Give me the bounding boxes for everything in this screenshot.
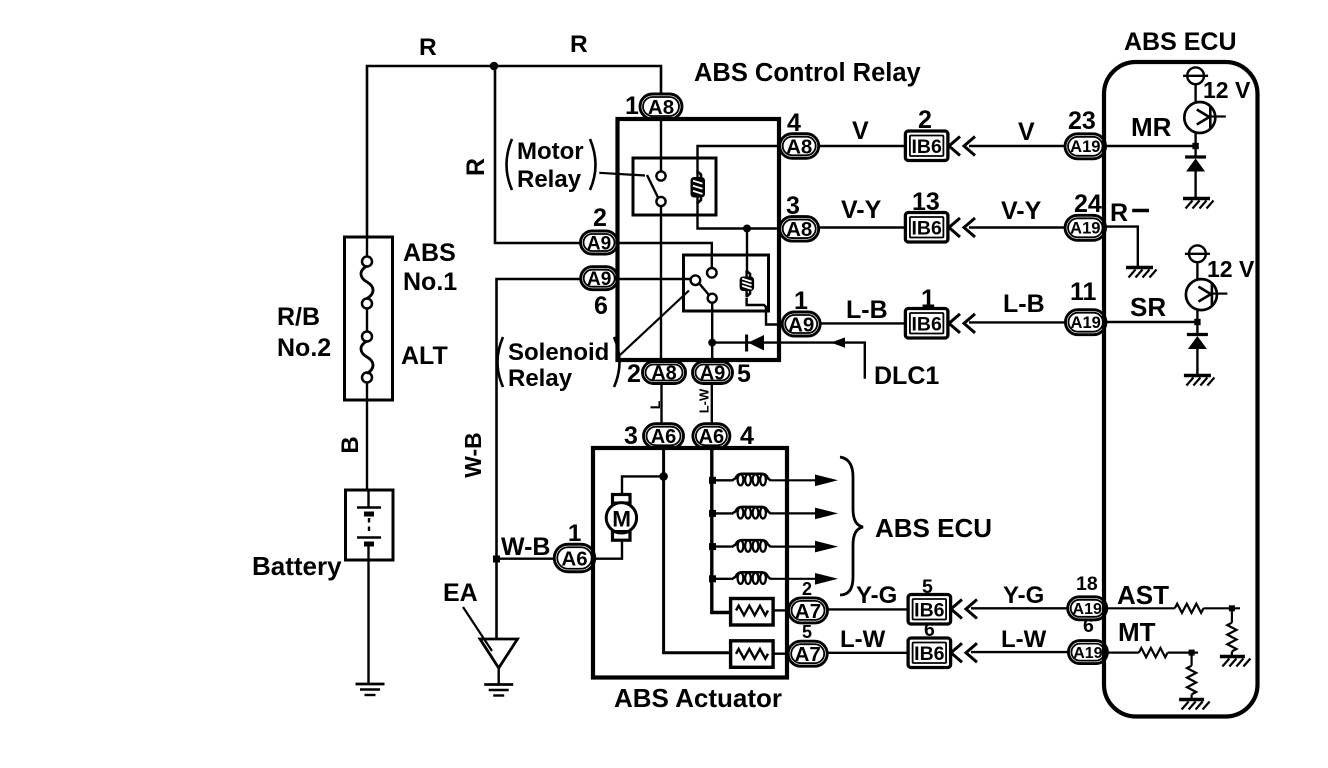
wire coil 1 to arrow	[771, 479, 818, 481]
label MT	[1118, 617, 1156, 647]
ground EA	[484, 685, 513, 696]
label B rotated	[337, 436, 364, 453]
svg-text:24: 24	[1074, 190, 1102, 218]
label DLC1	[874, 362, 939, 390]
svg-text:ABS ECU: ABS ECU	[1124, 28, 1237, 56]
svg-text:2: 2	[627, 360, 641, 388]
label pin 4 of A6	[740, 422, 754, 450]
wire MT resistor to junction	[1168, 651, 1198, 653]
wire AST from A19-18 to resistor	[1107, 607, 1175, 609]
svg-text:5: 5	[737, 360, 751, 388]
wire to solenoid coil 2	[713, 512, 732, 514]
solenoid valve coil 2	[732, 507, 772, 519]
wire from A8-1 into motor relay switch	[660, 119, 662, 172]
wire junction through diode to DLC1	[712, 343, 865, 379]
label ABS No.1	[403, 239, 457, 296]
svg-text:5: 5	[802, 622, 812, 642]
arrowhead coil 4	[815, 573, 838, 585]
wire resistor 1 to A7-2	[773, 609, 789, 611]
svg-text:R: R	[570, 31, 588, 58]
wire motor branch	[622, 476, 664, 495]
wire V from A8-4 to junction IB6-2	[819, 145, 906, 147]
wire coil 3 to arrow	[771, 545, 818, 547]
label R rotated on drop wire	[462, 158, 490, 176]
svg-text:2: 2	[802, 579, 812, 599]
transistor 2 (SR driver)	[1186, 279, 1228, 310]
svg-text:A8: A8	[648, 96, 674, 119]
svg-text:MR: MR	[1131, 112, 1172, 142]
arrows into IB6 row 5	[951, 643, 977, 662]
wire transistor 2 collector	[1196, 310, 1198, 335]
node junction solenoid coil 2	[709, 510, 716, 517]
pointer line Solenoid Relay label	[620, 291, 689, 356]
svg-text:18: 18	[1076, 573, 1098, 595]
wire MR from A19-23 to transistor	[1106, 145, 1196, 147]
label AST	[1117, 580, 1169, 610]
label R/B No.2	[277, 303, 331, 362]
wire 12V to transistor 1	[1194, 84, 1196, 103]
wire MT from A19-6 to resistor	[1107, 651, 1139, 653]
svg-text:2: 2	[593, 204, 607, 232]
svg-text:IB6: IB6	[914, 643, 945, 665]
ABS control relay box	[618, 119, 780, 360]
label pin 13 of IB6	[912, 188, 940, 216]
junction connector IB6 row 1	[905, 131, 948, 161]
label pin 2 of A7	[802, 579, 812, 599]
label pin 5 of IB6	[922, 576, 933, 598]
wire Y-G from A19-18 to IB6-5	[971, 607, 1068, 609]
label EA	[443, 579, 478, 607]
connector A19 (pin 6)	[1068, 641, 1107, 664]
arrows into IB6 row 2	[949, 218, 975, 237]
svg-text:1: 1	[625, 92, 639, 120]
arrowhead coil 2	[815, 508, 838, 520]
wire to solenoid coil 1	[713, 479, 732, 481]
arrows into IB6 row 4	[951, 600, 977, 619]
label pin 1 of A8	[625, 92, 639, 120]
wire V-Y from A8-3 to IB6-13	[819, 226, 906, 228]
connector A19 (pin 23)	[1065, 134, 1106, 159]
fuse ABS No.1	[361, 257, 373, 309]
resistor box 2 (L-W)	[731, 641, 774, 668]
label pin 23 of A19	[1068, 107, 1096, 135]
svg-text:V: V	[852, 117, 869, 145]
wire SR from A19-11 to transistor	[1106, 321, 1198, 323]
wire W-B branch to connector 1 A6	[497, 558, 555, 560]
label ALT	[401, 342, 448, 370]
battery	[346, 490, 394, 560]
wire motor to connector A6-1	[595, 540, 623, 559]
label pin 2 of bottom A8	[627, 360, 641, 388]
connector A9 (pin 1)	[782, 312, 820, 336]
wire junction down to solenoid coil	[746, 229, 748, 273]
brace ABS ECU	[840, 457, 863, 595]
node junction MR	[1192, 143, 1198, 149]
wire L-B from A9-1 to IB6-1	[820, 322, 905, 324]
junction connector IB6 row 2	[905, 213, 948, 243]
connector A9 (pin 6) left of relay	[581, 267, 618, 290]
wire L from A8-2 to A6-3	[660, 383, 662, 424]
svg-text:A8: A8	[786, 218, 812, 241]
ABS actuator box	[593, 448, 787, 678]
label ABS Actuator title	[614, 683, 782, 713]
svg-text:A19: A19	[1070, 220, 1100, 238]
label pin 1 of A9 right	[794, 287, 808, 315]
svg-text:R/B: R/B	[277, 303, 320, 331]
svg-text:IB6: IB6	[911, 313, 942, 335]
label pin 1 of A6	[568, 520, 581, 547]
arrowhead DLC1 pointing left	[831, 337, 845, 347]
label pin 2 of IB6	[918, 106, 932, 134]
label pin 1 of IB6 row3	[921, 285, 935, 313]
svg-text:Solenoid: Solenoid	[508, 339, 609, 366]
node junction motor branch	[659, 472, 668, 481]
svg-text:Y-G: Y-G	[1003, 582, 1044, 609]
connector A6 (W-B, pin 1)	[554, 544, 595, 572]
diode DLC1 clamp	[747, 335, 764, 352]
label L rotated	[647, 400, 663, 409]
resistor AST	[1175, 604, 1204, 613]
svg-text:R: R	[462, 158, 490, 176]
connector A8 (pin 4)	[780, 134, 819, 159]
connector A19 (pin 11)	[1065, 310, 1106, 335]
resistor AST pulldown	[1227, 608, 1236, 651]
wire to solenoid coil 3	[713, 545, 732, 547]
label L-W right	[1001, 626, 1047, 653]
label Y-G right	[1003, 582, 1044, 609]
svg-text:A6: A6	[561, 547, 587, 570]
svg-text:Relay: Relay	[508, 365, 573, 392]
wire A6-4 down to resistor 1	[712, 448, 731, 613]
svg-text:L-W: L-W	[1001, 626, 1047, 653]
node junction MT	[1189, 650, 1195, 656]
label pin 6 of A19	[1083, 615, 1094, 637]
fuse ALT	[361, 332, 373, 383]
pointer line Motor Relay label	[599, 173, 645, 176]
svg-text:R: R	[419, 34, 437, 61]
svg-text:M: M	[612, 506, 631, 531]
resistor MT	[1139, 648, 1168, 657]
svg-text:ABS: ABS	[403, 239, 456, 267]
wire connector A9-6 to solenoid switch	[618, 278, 691, 280]
resistor box 1 (Y-G)	[731, 599, 774, 626]
node junction above solenoid coil	[743, 225, 751, 233]
wire motor relay coil bottom to connector 3 A8	[698, 203, 780, 229]
ground MT	[1179, 700, 1210, 710]
wire V-Y from A19-24 to IB6-13	[969, 226, 1065, 228]
wire diode 2 to ground	[1196, 349, 1198, 374]
wire W-B from connector A9-6 down to EA ground with branch junction	[497, 279, 582, 638]
svg-text:ABS ECU: ABS ECU	[875, 513, 992, 543]
svg-text:L: L	[647, 400, 663, 409]
wire solenoid switch down to junction	[711, 303, 713, 343]
motor relay switch contacts	[647, 171, 666, 206]
solenoid relay switch contacts	[691, 268, 717, 303]
wire to solenoid coil 4	[713, 578, 732, 580]
wire L-B from A19-11 to IB6-1	[969, 321, 1065, 323]
svg-text:12 V: 12 V	[1203, 77, 1251, 103]
wire R bus from fuse box to relay, with junction	[367, 66, 661, 237]
node junction solenoid coil 3	[709, 543, 716, 550]
connector A9 (pin 5) bottom of relay	[693, 362, 733, 385]
svg-text:A9: A9	[788, 313, 814, 336]
connector A6 (pin 4)	[693, 424, 730, 449]
connector A9 (pin 2) left of relay	[581, 231, 618, 254]
wire coil 2 to arrow	[771, 512, 818, 514]
label (Motor Relay)	[507, 138, 596, 193]
svg-text:W-B: W-B	[501, 533, 550, 561]
svg-text:R: R	[1110, 199, 1128, 227]
label pin 5 of bottom A9	[737, 360, 751, 388]
arrowhead coil 3	[815, 541, 838, 553]
svg-text:12 V: 12 V	[1207, 256, 1255, 282]
ground ECU row 2	[1184, 376, 1215, 386]
junction connector IB6 row 5	[908, 638, 951, 668]
node junction diode/DLC1	[708, 339, 716, 347]
ground ECU row 1	[1183, 199, 1214, 209]
label 12 V row 1	[1203, 77, 1251, 103]
svg-text:V-Y: V-Y	[841, 196, 882, 224]
arrows into IB6 row 1	[949, 137, 975, 156]
svg-text:No.2: No.2	[277, 334, 331, 362]
svg-text:L-B: L-B	[1003, 290, 1045, 318]
svg-text:L-B: L-B	[846, 296, 888, 324]
label R (right segment)	[570, 31, 588, 58]
wire motor relay coil top to connector 4 A8	[698, 146, 780, 173]
svg-text:6: 6	[1083, 615, 1094, 637]
svg-text:A9: A9	[700, 363, 726, 385]
wire battery to ground	[367, 544, 369, 684]
label ABS ECU (brace)	[875, 513, 992, 543]
label Battery	[252, 551, 342, 581]
connector A19 (pin 24)	[1065, 215, 1106, 240]
pump motor M	[606, 495, 636, 541]
solenoid valve coil 4	[732, 572, 772, 584]
wire junction to A9-5 connector	[711, 343, 713, 362]
wire L-W from A19-6 to IB6-6	[971, 651, 1068, 653]
wire 12V to transistor 2	[1196, 262, 1198, 280]
label ABS Control Relay title	[694, 59, 922, 87]
label Y-G left	[856, 582, 897, 609]
label pin 4 of A8	[787, 109, 801, 137]
motor relay coil	[691, 171, 706, 204]
diode clamp 2	[1187, 335, 1208, 350]
label pin 24 of A19	[1074, 190, 1102, 218]
label L-W rotated	[697, 388, 712, 413]
svg-text:SR: SR	[1130, 292, 1166, 322]
svg-text:6: 6	[594, 292, 608, 320]
wire stubs inside fuse box	[366, 237, 368, 400]
label pin 5 of A7	[802, 622, 812, 642]
arrows into IB6 row 3	[949, 314, 975, 333]
label pin 3 of A8	[786, 192, 800, 220]
svg-text:No.1: No.1	[403, 268, 457, 296]
svg-text:W-B: W-B	[460, 432, 486, 478]
solenoid valve coil 3	[732, 540, 772, 552]
junction connector IB6 row 3	[905, 309, 948, 339]
node junction AST	[1229, 605, 1235, 611]
svg-text:3: 3	[624, 422, 638, 450]
label R-	[1110, 199, 1149, 227]
connector A7 (pin 2)	[789, 598, 828, 623]
label MR	[1131, 112, 1172, 142]
svg-text:A6: A6	[699, 426, 725, 448]
wire resistor 2 to A7-5	[773, 653, 789, 655]
label L-B right	[1003, 290, 1045, 318]
resistor MT pulldown	[1187, 653, 1196, 695]
wire to ground MT	[1190, 694, 1192, 698]
solenoid relay box	[684, 255, 769, 311]
svg-text:A7: A7	[795, 600, 821, 623]
ABS ECU box	[1104, 62, 1258, 717]
fuse box R/B No.2	[345, 237, 393, 400]
svg-text:B: B	[337, 436, 364, 453]
transistor 1 (MR driver)	[1184, 102, 1226, 133]
svg-text:A6: A6	[651, 426, 677, 448]
svg-text:IB6: IB6	[911, 136, 942, 158]
svg-text:A8: A8	[786, 135, 812, 158]
svg-text:23: 23	[1068, 107, 1096, 135]
wire B fuse box to battery	[366, 400, 368, 490]
solenoid relay coil	[740, 271, 755, 298]
label pin 3 of A6	[624, 422, 638, 450]
supply 12V row 2	[1185, 245, 1210, 262]
label pin 11 of A19	[1070, 278, 1097, 306]
solenoid valve coil 1	[732, 474, 772, 486]
svg-text:A8: A8	[651, 363, 677, 385]
ground point triangle EA	[480, 639, 518, 684]
ground battery	[356, 684, 385, 695]
wire solenoid coil to connector 1 A9	[747, 298, 783, 325]
wire R- from A19-24 to ground	[1106, 227, 1138, 266]
label V left	[852, 117, 869, 145]
label pin 6 of left A9	[594, 292, 608, 320]
label R (left segment)	[419, 34, 437, 61]
label W-B rotated	[460, 432, 486, 478]
svg-text:Motor: Motor	[517, 138, 584, 165]
wire motor relay switch to bottom connector 2 A8	[660, 206, 662, 362]
svg-text:A7: A7	[795, 643, 821, 666]
label pin 6 of IB6	[924, 619, 935, 641]
connector A7 (pin 5)	[788, 641, 827, 666]
svg-text:IB6: IB6	[911, 217, 942, 239]
wire to ground AST	[1231, 651, 1233, 655]
svg-text:DLC1: DLC1	[874, 362, 939, 390]
svg-text:A9: A9	[587, 269, 611, 290]
node junction solenoid coil 4	[709, 575, 716, 582]
svg-text:Relay: Relay	[517, 166, 582, 193]
connector A8 (pin 3)	[780, 217, 819, 242]
label W-B horizontal	[501, 533, 550, 561]
label V right	[1018, 118, 1035, 146]
node junction SR	[1194, 319, 1200, 325]
ground R-	[1126, 268, 1157, 278]
svg-text:ABS Actuator: ABS Actuator	[614, 683, 782, 713]
svg-text:A19: A19	[1071, 314, 1101, 332]
svg-text:11: 11	[1070, 278, 1097, 306]
ground AST	[1220, 657, 1251, 667]
wire transistor 1 collector	[1194, 132, 1196, 157]
svg-text:ABS Control Relay: ABS Control Relay	[694, 59, 922, 87]
svg-text:IB6: IB6	[914, 599, 945, 621]
node junction W-B branch	[493, 556, 500, 563]
label (Solenoid Relay)	[498, 337, 620, 392]
supply 12V row 1	[1183, 67, 1208, 84]
arrowhead coil 1	[815, 475, 838, 487]
label pin 18 of A19	[1076, 573, 1098, 595]
wire V from A19-23 to IB6-2	[969, 145, 1065, 147]
label ABS ECU title	[1124, 28, 1237, 56]
wire connector 2 A9 to solenoid switch	[618, 243, 712, 268]
svg-text:Battery: Battery	[252, 551, 342, 581]
label V-Y right	[1001, 197, 1042, 225]
svg-text:A9: A9	[587, 233, 611, 254]
svg-text:V-Y: V-Y	[1001, 197, 1042, 225]
svg-text:AST: AST	[1117, 580, 1169, 610]
svg-text:A19: A19	[1070, 138, 1100, 156]
junction connector IB6 row 4	[908, 595, 951, 625]
svg-text:A19: A19	[1073, 645, 1102, 662]
diode clamp 1	[1185, 157, 1206, 172]
svg-text:V: V	[1018, 118, 1035, 146]
motor relay box	[633, 158, 716, 215]
node junction solenoid coil 1	[709, 477, 716, 484]
label 12 V row 2	[1207, 256, 1255, 282]
svg-text:L-W: L-W	[840, 626, 886, 653]
label L-B left	[846, 296, 888, 324]
wire L-W from A7-5 to IB6-6	[827, 652, 908, 654]
node junction on R bus	[490, 62, 499, 71]
pointer line EA	[463, 607, 492, 651]
connector A8 (pin 1) top of relay	[640, 94, 682, 119]
label pin 2 of left A9	[593, 204, 607, 232]
svg-text:ALT: ALT	[401, 342, 448, 370]
label SR	[1130, 292, 1166, 322]
label L-W left	[840, 626, 886, 653]
svg-text:Y-G: Y-G	[856, 582, 897, 609]
wire R drop from bus junction to connector 2 A9	[495, 66, 581, 243]
svg-text:4: 4	[740, 422, 754, 450]
label V-Y left	[841, 196, 882, 224]
connector A8 (pin 2) bottom of relay	[643, 362, 686, 385]
wire L-W from A9-5 to A6-4	[711, 383, 713, 424]
wire diode 1 to ground	[1194, 172, 1196, 198]
svg-text:L-W: L-W	[697, 388, 712, 413]
connector A19 (pin 18)	[1068, 597, 1107, 620]
connector A6 (pin 3)	[644, 424, 684, 449]
wire coil 4 to arrow	[771, 578, 818, 580]
svg-text:MT: MT	[1118, 617, 1156, 647]
wire Y-G from A7-2 to IB6-5	[828, 608, 909, 610]
svg-text:EA: EA	[443, 579, 478, 607]
wire AST resistor to junction	[1204, 607, 1241, 609]
wire A6-3 down to motor junction and resistor 2	[664, 448, 731, 653]
